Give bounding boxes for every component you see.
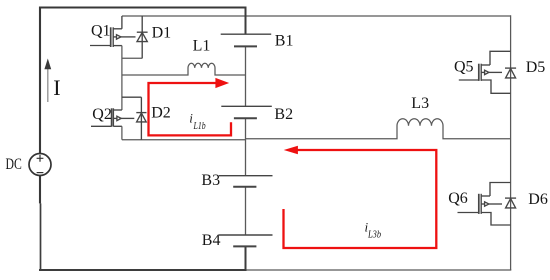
svg-text:Q5: Q5 [454, 58, 474, 75]
node drain rail y16 [122, 15, 511, 17]
svg-text:DC: DC [6, 156, 22, 173]
wire Q1 source to D1 anode [122, 57, 142, 59]
wire Q2 source down [121, 126, 123, 139]
battery B4 [219, 235, 273, 246]
node middle rail segment 5 [245, 246, 247, 271]
svg-text:L3: L3 [411, 95, 429, 112]
battery B2 [221, 106, 271, 118]
wire bottom rail left [39, 269, 246, 271]
svg-text:L1: L1 [193, 38, 211, 55]
battery B1 [221, 34, 272, 46]
diode D1 [137, 16, 148, 58]
node middle rail segment 2 [245, 46, 247, 106]
diode D6 [505, 198, 516, 208]
svg-text:B2: B2 [274, 106, 293, 123]
wire left rail bottom segment [40, 203, 42, 271]
wire right rail [510, 15, 512, 270]
svg-text:Q2: Q2 [92, 106, 112, 123]
node middle rail segment 1 [245, 7, 247, 35]
inductor L3 [246, 119, 511, 139]
svg-text:L1b: L1b [193, 121, 206, 132]
wire phase node vertical Q1-Q2 [121, 46, 123, 110]
wire left rail lower segment [39, 176, 41, 204]
node middle rail segment 4 [245, 187, 247, 235]
svg-text:Q6: Q6 [448, 190, 468, 207]
transistor Q6 [458, 183, 511, 226]
svg-text:D5: D5 [526, 59, 546, 76]
svg-text:B4: B4 [202, 232, 221, 249]
transistor Q1 [90, 16, 136, 47]
node middle rail segment 3 [245, 118, 247, 175]
current loop iL3b wire [284, 150, 437, 248]
svg-text:L3b: L3b [367, 229, 381, 240]
source DC V1 [29, 154, 51, 176]
svg-text:I: I [53, 75, 60, 100]
wire left rail upper segment [39, 7, 41, 154]
transistor Q5 [459, 51, 511, 93]
current loop iL1b wire [149, 83, 232, 135]
current loop iL1b arrowhead [215, 78, 229, 88]
battery B3 [219, 176, 273, 187]
svg-text:B3: B3 [201, 172, 220, 189]
current loop iL3b arrowhead [284, 146, 298, 154]
transistor Q2 [91, 108, 134, 126]
diode D2 [122, 97, 147, 140]
current arrow I [44, 59, 51, 103]
wire Q2 source to middle rail [122, 139, 246, 141]
svg-text:B1: B1 [275, 32, 294, 49]
svg-text:D6: D6 [528, 191, 548, 208]
wire outer top rail [39, 6, 246, 8]
diode D5 [505, 68, 516, 78]
svg-text:D2: D2 [151, 105, 171, 122]
inductor L1 [122, 63, 246, 75]
svg-text:Q1: Q1 [91, 23, 111, 40]
svg-text:D1: D1 [152, 25, 172, 42]
wire bottom rail right [245, 269, 511, 271]
